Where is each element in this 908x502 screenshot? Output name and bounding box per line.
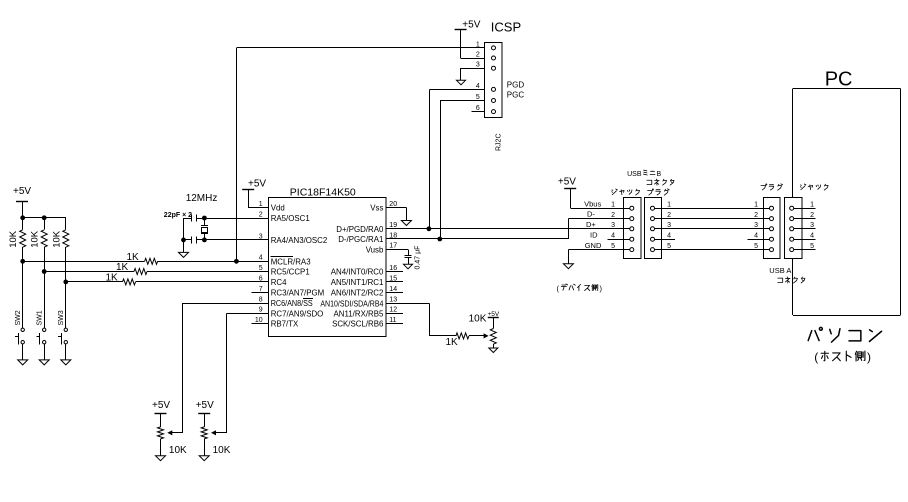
svg-text:4: 4 [476,83,480,90]
svg-text:Vusb: Vusb [366,245,384,254]
label 1K (pin13) [446,337,459,348]
connector USB mini-B plug box [645,198,662,259]
svg-text:22pF × 2: 22pF × 2 [164,212,192,219]
cable pin 2 number right [754,212,758,219]
svg-text:RB7/TX: RB7/TX [271,320,299,329]
mini plug pin 3 contact [651,227,655,231]
svg-text:1K: 1K [106,272,119,283]
switch SW2 [15,328,25,344]
pin 7 number [259,286,263,293]
label ICSP [491,19,521,34]
wire Vss [386,208,407,221]
label konekuta (A) [778,277,805,283]
pin 19 number [389,222,397,229]
ic U1 PIC18F14K50 box [269,198,386,337]
pin 15 number [389,275,397,282]
pin 9 label RC7/AN9/SDO [271,309,324,318]
wire row pin5 left [44,271,134,273]
pin 19 label D+/PGD/RA0 [336,225,384,234]
cable pin 3 number left [667,222,671,229]
label Vbus [584,199,601,208]
label PC [825,68,853,90]
svg-text:AN5/INT1/RC1: AN5/INT1/RC1 [331,278,384,287]
pin 13 number [389,297,397,304]
power +5V (VR1) [152,400,170,427]
pc box [793,89,901,316]
label 10K VR1 [169,445,187,456]
label device side [557,284,603,293]
USB A jack pin 3 number [810,222,814,229]
svg-text:5: 5 [754,243,758,250]
wire D+ into jack [608,228,630,230]
pin 2 label RA5/OSC1 [271,214,310,223]
svg-text:PIC18F14K50: PIC18F14K50 [290,186,356,198]
ground SW1 [39,360,49,365]
svg-text:RJ2C: RJ2C [496,133,503,151]
svg-text:D-: D- [587,210,595,219]
svg-text:3: 3 [810,222,814,229]
svg-text:4: 4 [611,233,615,240]
USB jack pin 1 number [611,202,615,209]
label USB mini B [627,170,661,178]
wire ICSP pin6 stub [472,111,485,113]
svg-text:1K: 1K [127,252,140,263]
connector USB A jack box [785,198,803,259]
pin 16 stub [386,271,403,273]
power +5V (VR2) [196,400,214,427]
svg-text:3: 3 [259,233,263,240]
wire ICSP pin5 PGC [440,100,484,102]
svg-text:4: 4 [810,233,814,240]
pin 9 number [259,307,263,314]
ICSP pin 6 contact [492,110,496,114]
connector USB A plug box [764,198,781,259]
svg-text:1: 1 [259,201,263,208]
connector J1 ICSP box [485,43,502,118]
pin 11 stub [386,323,403,325]
svg-text:10K: 10K [51,230,62,248]
wire pin13 [386,303,456,336]
cable pin 4 number right [754,233,758,240]
svg-text:3: 3 [611,222,615,229]
USB jack pin 3 contact [630,227,634,231]
pin 17 number [389,243,397,250]
wire ICSP pin3 [461,68,485,80]
USB A jack pin 4 stub [794,239,816,241]
USB A plug pin 2 contact [770,217,774,221]
USB A jack pin 4 contact [790,237,794,241]
USB A plug pin 1 contact [770,206,774,210]
label R2 10K [30,230,41,248]
USB A jack pin 3 contact [790,227,794,231]
pin 2 number [259,211,263,218]
label 22pF x 2 [164,212,192,219]
label D+ [586,220,596,229]
power +5V (Vbus) [558,176,576,208]
mini plug pin 5 contact [651,248,655,252]
wire crystal bottom stub [204,234,206,240]
svg-text:USB: USB [627,171,642,178]
svg-text:+5V: +5V [196,400,214,411]
pin 20 label Vss [370,204,383,213]
svg-text:1: 1 [810,202,814,209]
svg-text:20: 20 [389,201,397,208]
svg-text:12: 12 [389,307,397,314]
ICSP pin 2 contact [492,56,496,60]
label puragu (mini) [648,189,670,195]
label 10K VR3 [469,313,487,324]
wire 1K to pot VR3 [469,335,484,337]
svg-text:D+: D+ [586,220,596,229]
ICSP pin 1 contact [492,46,496,50]
wire PGD vertical [429,89,431,228]
pin 16 label AN4/INT0/RC0 [331,268,384,277]
svg-text:2: 2 [611,212,615,219]
resistor 1K (row pin4) [145,258,158,264]
wire R2 top [44,218,46,230]
label PGD [507,80,525,89]
svg-text:8: 8 [259,297,263,304]
pin 4 number [259,255,263,262]
label 10K VR2 [213,445,231,456]
resistor R2 10K [41,230,47,247]
wire SW1 top [44,272,46,328]
ICSP pin 2 number [476,51,480,58]
wire cap rail bottom [184,239,192,241]
resistor 1K (pin13) [456,333,469,339]
capacitor C3 0.47uF [404,256,411,265]
pin 14 label AN6/INT2/RC2 [331,289,384,298]
pin 7 label RC3/AN7/PGM [271,289,325,298]
svg-text:1: 1 [667,202,671,209]
junction crystal bottom [202,238,207,243]
cable pin 1 number right [754,202,758,209]
wire row pin4 right [158,261,269,263]
svg-text:12MHz: 12MHz [186,193,218,204]
wire D+ (pin19 to USB) [386,228,624,230]
svg-text:D-/PGC/RA1: D-/PGC/RA1 [338,235,383,244]
resistor 1K (row pin6) [123,279,136,285]
wire cap ground rail [183,218,185,252]
label D- [587,210,595,219]
svg-text:17: 17 [389,243,397,250]
label PGC [507,91,525,100]
ICSP pin 6 number [476,105,480,112]
pin 17 label Vusb [366,245,384,254]
wire SW3 bottom [65,344,67,360]
wire pin9 to VR2 [226,313,268,433]
USB A jack pin 1 contact [790,206,794,210]
cable wire 4 left stub [655,239,675,241]
svg-text:B: B [657,171,662,178]
ground SW3 [61,360,71,365]
USB A jack pin 2 contact [790,217,794,221]
switch SW3 [58,328,68,344]
wire ICSP1-MCLR vertical [236,48,238,261]
USB A jack pin 2 number [810,212,814,219]
wire row pin5 right [147,271,269,273]
ground ICSP [457,80,466,85]
label R1 10K [8,230,19,248]
svg-text:7: 7 [259,286,263,293]
svg-text:5: 5 [611,243,615,250]
label ID [590,230,598,239]
pin 1 label Vdd [271,204,285,213]
label SW3 [58,310,65,325]
svg-text:PGC: PGC [507,91,525,100]
svg-text:5: 5 [476,94,480,101]
svg-text:1: 1 [476,41,480,48]
wire D- into jack [608,218,630,220]
cable wire 1 [655,208,770,210]
junction MCLR [234,259,239,264]
ICSP pin 4 number [476,83,480,90]
USB A plug pin 3 contact [770,227,774,231]
svg-text:RA5/OSC1: RA5/OSC1 [271,214,310,223]
label host side [814,350,871,364]
connector USB mini-B jack box [624,198,641,259]
pin 12 stub [386,313,403,315]
label konekuta (mini) [647,179,674,185]
USB jack pin 4 number [611,233,615,240]
wire GND [568,249,629,251]
pin 12 label AN11/RX/RB5 [334,309,384,318]
capacitor C1 22pF [192,215,197,222]
wire cap rail top [184,218,192,220]
ICSP pin 5 contact [492,99,496,103]
svg-text:+5V: +5V [152,400,170,411]
wire R1 top [22,218,24,230]
svg-text:2: 2 [476,51,480,58]
USB jack pin 3 number [611,222,615,229]
svg-text:+5V: +5V [13,186,31,197]
pin 10 label RB7/TX [271,320,299,329]
wire crystal top stub [204,218,206,225]
pin 12 number [389,307,397,314]
svg-text:6: 6 [476,105,480,112]
svg-text:10: 10 [255,317,263,324]
USB jack pin 5 number [611,243,615,250]
cable wire 3 [655,228,770,230]
ground SW2 [18,360,28,365]
potentiometer VR1 10K [158,427,164,439]
ICSP pin 1 number [476,41,480,48]
cable pin 4 number left [667,233,671,240]
wire ID stub [608,239,630,241]
ground VR1 [156,456,166,461]
svg-text:4: 4 [754,233,758,240]
wire row pin6 right [136,281,269,283]
wire row pin6 left [66,281,123,283]
label USB A [769,266,791,275]
wire Vdd [248,207,268,209]
pin 3 number [259,233,263,240]
wire ICSP pin2 [461,58,485,60]
switch SW1 [36,328,46,344]
pin 5 label RC5/CCP1 [271,268,310,277]
power +5V (switch pull-up rail) [13,186,31,218]
svg-text:AN6/INT2/RC2: AN6/INT2/RC2 [331,289,384,298]
svg-text:4: 4 [667,233,671,240]
pin 18 label D-/PGC/RA1 [338,235,383,244]
svg-text:10K: 10K [8,230,19,248]
svg-text:5: 5 [810,243,814,250]
svg-text:(: ( [814,350,818,364]
svg-text:10K: 10K [30,230,41,248]
svg-text:6: 6 [259,275,263,282]
svg-text:1K: 1K [446,337,459,348]
resistor 1K (row pin5) [134,269,147,275]
wire SW2 bottom [22,344,24,360]
wire SW1 bottom [44,344,46,360]
svg-text:MCLR/RA3: MCLR/RA3 [271,257,312,266]
USB A jack pin 1 number [810,202,814,209]
svg-text:SCK/SCL/RB6: SCK/SCL/RB6 [332,320,384,329]
label jakku (A) [800,184,828,190]
junction node SW2/RC5 row [20,259,25,264]
svg-text:Vbus: Vbus [584,199,601,208]
USB A jack pin 4 number [810,233,814,240]
wire C2 to OSC2 [196,239,268,241]
label puragu (A) [761,184,783,190]
junction rail-R1 [20,215,25,220]
mini plug pin 2 contact [651,217,655,221]
svg-text:4: 4 [259,255,263,262]
svg-text:+5V: +5V [248,178,266,189]
svg-text:AN11/RX/RB5: AN11/RX/RB5 [334,309,384,318]
wire D- jog [568,219,570,239]
wire Vusb [386,249,409,255]
wire VR3 bottom [493,344,495,348]
ICSP pin 4 contact [492,87,496,91]
USB A jack pin 3 stub [794,228,816,230]
svg-text:5: 5 [259,265,263,272]
svg-text:PGD: PGD [507,80,525,89]
svg-text:): ) [867,350,871,364]
label pasokon [808,327,881,342]
pin 14 number [389,286,397,293]
svg-text:RC3/AN7/PGM: RC3/AN7/PGM [271,289,325,298]
pin 10 stub [252,323,269,325]
wire C1 to OSC1 [196,218,268,220]
svg-text:10K: 10K [213,445,231,456]
ground Vss [401,221,411,226]
USB A plug pin 4 contact [770,237,774,241]
USB A jack pin 5 number [810,243,814,250]
svg-text:9: 9 [259,307,263,314]
label SW1 [37,310,44,325]
label jakku (mini) [612,189,640,195]
wire SW3 top [65,282,67,328]
svg-text:5: 5 [667,243,671,250]
USB A plug pin 5 contact [770,248,774,252]
pin 15 stub [386,281,403,283]
pin 10 number [255,317,263,324]
potentiometer VR2 10K [201,427,207,439]
svg-text:PC: PC [825,68,853,90]
svg-text:SW1: SW1 [37,310,44,325]
wire R2 bottom [44,247,46,271]
potentiometer VR3 10K [490,329,496,345]
junction PGC/D- [437,237,442,242]
ground VR2 [199,456,209,461]
pin 11 label SCK/SCL/RB6 [332,320,384,329]
USB A jack pin 5 stub [794,249,816,251]
svg-text:16: 16 [389,265,397,272]
svg-text:1K: 1K [116,262,129,273]
svg-text:3: 3 [476,62,480,69]
pin 8 label RC6/AN8/SS [271,299,314,309]
ground VR3 [489,348,498,353]
svg-text:10K: 10K [169,445,187,456]
wire ICSP pin1 [236,47,484,49]
wire +5V rail [23,217,66,219]
wire ICSP pin4 PGD [430,89,485,91]
label 1K (row pin4) [127,252,140,263]
junction PGD/D+ [427,226,432,231]
svg-text:2: 2 [810,212,814,219]
svg-text:14: 14 [389,286,397,293]
cable wire 5 [655,249,770,251]
USB A jack pin 2 stub [794,218,816,220]
svg-text:ICSP: ICSP [491,19,521,34]
svg-text:0.47 μF: 0.47 μF [415,246,422,270]
wire R3 bottom [65,247,67,282]
pin 5 number [259,265,263,272]
svg-text:+5V: +5V [462,19,480,30]
USB jack pin 5 contact [630,248,634,252]
wiper arrow VR3 [484,333,489,338]
USB jack pin 1 contact [630,206,634,210]
cable wire 4 right stub [747,239,769,241]
svg-text:RC4: RC4 [271,278,287,287]
svg-text:AN10/SDI/SDA/RB4: AN10/SDI/SDA/RB4 [320,299,384,308]
wire Vbus [570,208,629,210]
junction node SW1/RC4 row [42,269,47,274]
svg-text:ID: ID [590,230,598,239]
label 12MHz [186,193,218,204]
svg-text:SW2: SW2 [15,310,22,325]
power +5V (Vdd) [242,178,266,207]
svg-text:AN4/INT0/RC0: AN4/INT0/RC0 [331,268,384,277]
label 1K (row pin5) [116,262,129,273]
power +5V (VR3) [488,311,500,328]
USB jack pin 2 contact [630,217,634,221]
ICSP pin 3 contact [492,66,496,70]
cable pin 5 number right [754,243,758,250]
pin 4 label MCLR/RA3 [271,257,312,267]
pin 6 number [259,275,263,282]
svg-text:11: 11 [389,317,396,324]
wire pin8 to VR1 [183,303,269,433]
pin 8 number [259,297,263,304]
crystal X1 [201,226,208,234]
cable pin 5 number left [667,243,671,250]
wire R1 bottom [22,247,24,261]
capacitor C2 22pF [192,236,197,243]
wire SW2 top [22,261,24,328]
cable pin 2 number left [667,212,671,219]
ICSP pin 5 number [476,94,480,101]
svg-text:RC7/AN9/SDO: RC7/AN9/SDO [271,309,324,318]
svg-text:RA4/AN3/OSC2: RA4/AN3/OSC2 [271,236,328,245]
label SW2 [15,310,22,325]
svg-text:SW3: SW3 [58,310,65,325]
pin 16 number [389,265,397,272]
wire VR2 bottom [204,439,206,456]
svg-text:13: 13 [389,297,397,304]
pin 11 number [389,317,396,324]
